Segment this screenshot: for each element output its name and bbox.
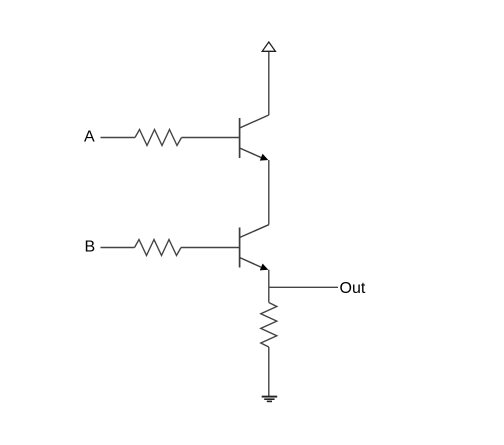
wire R3 to ground	[268, 347, 270, 396]
power VCC symbol	[262, 42, 275, 51]
wire B to R2	[101, 247, 135, 249]
svg-text:Out: Out	[340, 280, 366, 297]
wire R1 to Q1 base	[182, 137, 240, 139]
wire Out node to R3	[268, 287, 270, 302]
resistor R3	[261, 303, 277, 348]
transistor Q1	[240, 115, 269, 161]
transistor Q2	[240, 225, 269, 271]
svg-text:B: B	[85, 239, 96, 256]
wire Q1 collector to VCC	[268, 52, 270, 116]
wire Q1 emitter to Q2 collector	[268, 160, 270, 225]
resistor R2	[135, 240, 182, 256]
svg-text:A: A	[84, 129, 95, 146]
wire A to R1	[101, 137, 136, 139]
wire Q2 emitter to Out node	[268, 270, 270, 288]
resistor R1	[135, 130, 182, 146]
wire R2 to Q2 base	[181, 247, 240, 249]
ground	[262, 397, 278, 402]
wire Out	[269, 286, 338, 288]
